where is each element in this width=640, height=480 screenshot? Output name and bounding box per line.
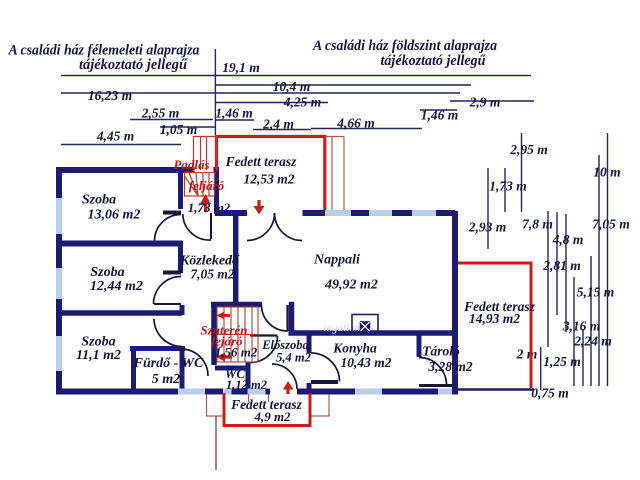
window konyha bottom	[355, 389, 382, 395]
door tároló arc	[419, 358, 447, 386]
svg-text:tájékoztató jellegű: tájékoztató jellegű	[79, 57, 188, 73]
WALLS	[56, 167, 534, 395]
wall nappali bottom	[289, 330, 456, 336]
DOORS	[154, 213, 453, 390]
svg-text:1,12 m2: 1,12 m2	[226, 378, 267, 392]
dim line 4,8 m	[556, 212, 558, 315]
svg-text:2,81 m: 2,81 m	[542, 258, 581, 273]
wall WC top	[215, 366, 246, 371]
window small bottom	[223, 389, 232, 395]
dim line 10 m	[607, 133, 609, 386]
door konyha arc	[311, 353, 340, 382]
wall fürdő right	[180, 346, 185, 391]
window szoba1 left	[56, 198, 62, 234]
dimension lines top	[61, 49, 534, 145]
title right plan	[312, 38, 497, 69]
vertical divider line top	[214, 49, 216, 135]
wall stair band top	[211, 302, 262, 308]
dim line 2 m	[540, 347, 542, 390]
wall jog vertical	[289, 302, 295, 333]
svg-text:10,4 m: 10,4 m	[273, 79, 311, 94]
svg-text:Szoba: Szoba	[82, 193, 116, 208]
wall divider szoba2/szoba3	[59, 310, 182, 316]
WINDOWS light blue	[59, 198, 452, 392]
door nappali french right	[275, 213, 303, 241]
door konyha leaf	[311, 380, 338, 384]
dim line 2,95 m	[521, 133, 523, 212]
bottom terrace 4,9 outline	[224, 393, 310, 426]
svg-text:tájékoztató jellegű: tájékoztató jellegű	[381, 53, 487, 69]
attic up arrow	[200, 194, 211, 212]
wall stair band top right piece	[289, 302, 294, 308]
svg-text:Konyha: Konyha	[332, 341, 377, 356]
door nappali-elöszoba leaf	[286, 305, 288, 331]
wall konyha/tároló	[417, 335, 422, 357]
door nappali french left	[247, 213, 275, 241]
bottom terrace left step	[207, 394, 224, 416]
window nappali top 1	[325, 210, 351, 216]
outer wall bottom east	[297, 389, 458, 395]
svg-text:13,06 m2: 13,06 m2	[88, 208, 141, 223]
svg-text:1,25 m: 1,25 m	[543, 354, 581, 369]
door szoba3 leaf	[154, 303, 181, 305]
wall WC right	[246, 362, 251, 391]
svg-text:2,24 m: 2,24 m	[573, 334, 612, 349]
svg-text:1,73 m: 1,73 m	[489, 179, 527, 194]
entrance up arrow	[283, 381, 294, 394]
wall elöszoba/konyha	[307, 333, 312, 353]
door wc leaf	[250, 334, 278, 336]
dim line 2,24 m	[582, 329, 584, 386]
wall junction vertical x215	[214, 168, 219, 214]
svg-text:2,4 m: 2,4 m	[262, 117, 294, 132]
svg-text:11,1 m2: 11,1 m2	[76, 348, 121, 363]
svg-text:12,53 m2: 12,53 m2	[243, 172, 294, 187]
dimension labels right side	[468, 142, 630, 401]
dim line 4,66 m	[311, 128, 422, 130]
door stair shaft leaf	[210, 213, 212, 239]
svg-text:4,9 m2: 4,9 m2	[253, 409, 291, 424]
svg-text:14,93 m2: 14,93 m2	[469, 311, 520, 326]
window szoba3 left	[56, 336, 62, 371]
door tároló leaf	[419, 384, 452, 387]
outer wall right	[452, 211, 458, 394]
wall nappali top	[215, 210, 247, 216]
svg-text:16,23 m: 16,23 m	[88, 88, 132, 103]
svg-text:1,56 m2: 1,56 m2	[215, 345, 258, 360]
bottom terrace right step	[311, 394, 329, 416]
svg-text:feljáró: feljáró	[189, 178, 225, 193]
svg-text:5,4 m2: 5,4 m2	[276, 351, 311, 365]
svg-text:A családi ház földszint alapra: A családi ház földszint alaprajza	[312, 38, 497, 54]
terrace bottom edge line	[455, 388, 534, 391]
door wc arc	[251, 336, 278, 363]
svg-text:7,05 m: 7,05 m	[592, 217, 630, 232]
dim line 7,8 m	[547, 211, 549, 347]
title left plan	[8, 43, 200, 74]
door szoba2 stub	[163, 271, 181, 275]
svg-text:2,55 m: 2,55 m	[141, 106, 180, 121]
door entrance arc	[272, 364, 297, 389]
attic fan stair box	[185, 173, 215, 197]
svg-text:0,75 m: 0,75 m	[531, 386, 569, 401]
svg-text:1,05 m: 1,05 m	[160, 122, 198, 137]
svg-text:3,16 m: 3,16 m	[562, 319, 601, 334]
dim line 5,15 m	[590, 256, 592, 386]
dim line 2,81 m	[565, 214, 567, 332]
dim line 16,23 m	[61, 92, 460, 94]
boiler symbol	[352, 315, 378, 332]
dim line 1,46 m left	[215, 119, 254, 121]
svg-text:2,95 m: 2,95 m	[509, 142, 548, 157]
dim line 19,1 m	[61, 75, 531, 77]
svg-text:10,43 m2: 10,43 m2	[340, 355, 391, 370]
dimension labels top	[88, 60, 501, 144]
svg-text:4,25 m: 4,25 m	[283, 95, 322, 110]
wall west of stair	[211, 302, 217, 365]
terrace 12,53 outline	[217, 137, 325, 211]
wall nappali left	[233, 211, 239, 307]
svg-text:Fedett terasz: Fedett terasz	[225, 154, 298, 169]
dimension lines right side	[488, 133, 608, 390]
svg-text:5 m2: 5 m2	[152, 372, 180, 387]
section line lower	[215, 416, 217, 470]
ROOM LABELS	[76, 154, 536, 424]
svg-text:1,46 m: 1,46 m	[215, 106, 253, 121]
window szoba2 left	[56, 268, 62, 299]
bottom terrace inner step	[249, 394, 269, 402]
terrace door down arrow	[254, 200, 265, 215]
wall elöszoba/konyha lower	[307, 383, 312, 391]
svg-text:7,05 m2: 7,05 m2	[190, 267, 235, 282]
dim line 2,9 m	[450, 100, 534, 102]
svg-text:Tároló: Tároló	[422, 344, 460, 359]
window WC bottom	[248, 389, 266, 395]
door szoba1 arc	[155, 215, 182, 242]
window fürdő bottom	[178, 389, 205, 395]
dim line 1,46 m right	[420, 109, 457, 111]
dim line 2,55 m	[130, 119, 213, 121]
dim line 2,4 m	[253, 129, 311, 131]
szuterén arrow upper	[217, 312, 231, 320]
door szoba1 stub	[163, 211, 181, 215]
wall corridor west upper	[178, 167, 183, 209]
outer wall top (left bldg)	[56, 167, 195, 173]
wall nappali top windows band	[303, 210, 456, 216]
outer wall left	[56, 167, 62, 395]
szuterén stair box	[217, 307, 258, 362]
svg-text:10 m: 10 m	[593, 165, 620, 180]
dim line 1,73 m	[504, 168, 506, 212]
svg-text:4,66 m: 4,66 m	[336, 116, 375, 131]
svg-text:4,8 m: 4,8 m	[552, 232, 584, 247]
svg-text:Fürdő - WC: Fürdő - WC	[133, 356, 204, 371]
svg-text:2,9 m: 2,9 m	[469, 95, 501, 110]
door szoba3 arc	[154, 319, 182, 347]
svg-text:12,44 m2: 12,44 m2	[90, 279, 143, 294]
dim line 10,4 m	[215, 84, 471, 86]
dim line 7,05 m	[598, 155, 600, 386]
svg-text:7,8 m: 7,8 m	[522, 217, 553, 232]
wall divider szoba1/szoba2	[59, 241, 182, 247]
dim line 2,93 m	[487, 168, 489, 249]
window tároló bottom	[438, 389, 452, 395]
svg-text:Nappali: Nappali	[313, 253, 360, 268]
window nappali top 2	[369, 210, 392, 216]
dim line 1,05 m	[160, 126, 215, 128]
svg-text:Padlás: Padlás	[173, 157, 209, 172]
dim line a	[573, 277, 575, 386]
wall corridor west mid	[178, 241, 183, 273]
svg-text:1,46 m: 1,46 m	[421, 108, 459, 123]
outer wall top corner piece	[214, 167, 220, 173]
door szoba2 arc	[154, 277, 182, 305]
wall jamb divider2 end	[180, 305, 185, 315]
svg-text:Szoba: Szoba	[90, 265, 124, 280]
svg-text:19,1 m: 19,1 m	[222, 60, 260, 75]
wall fürdő left	[131, 346, 136, 391]
svg-text:2 m: 2 m	[516, 347, 538, 362]
terrace 14,93 outline	[458, 263, 531, 388]
window nappali top 3	[412, 210, 436, 216]
svg-text:3,28 m2: 3,28 m2	[427, 359, 473, 374]
door fürdő arc	[181, 349, 208, 376]
door stair shaft arc	[183, 214, 211, 240]
door nappali-elöszoba arc	[262, 305, 288, 331]
svg-text:1,73 m2: 1,73 m2	[188, 200, 231, 215]
dim line 4,45 m	[61, 144, 181, 146]
padlás shaft box	[194, 137, 217, 172]
svg-text:2,93 m: 2,93 m	[468, 220, 507, 235]
dim line 4,25 m	[215, 102, 328, 104]
svg-text:49,92 m2: 49,92 m2	[324, 278, 378, 293]
outer wall bottom west	[56, 389, 270, 395]
szuterén arrow lower	[216, 353, 232, 362]
terrace side stair lines	[325, 137, 344, 211]
svg-text:5,15 m: 5,15 m	[577, 285, 615, 300]
svg-text:4,45 m: 4,45 m	[96, 129, 135, 144]
wall fürdő top	[130, 346, 185, 351]
